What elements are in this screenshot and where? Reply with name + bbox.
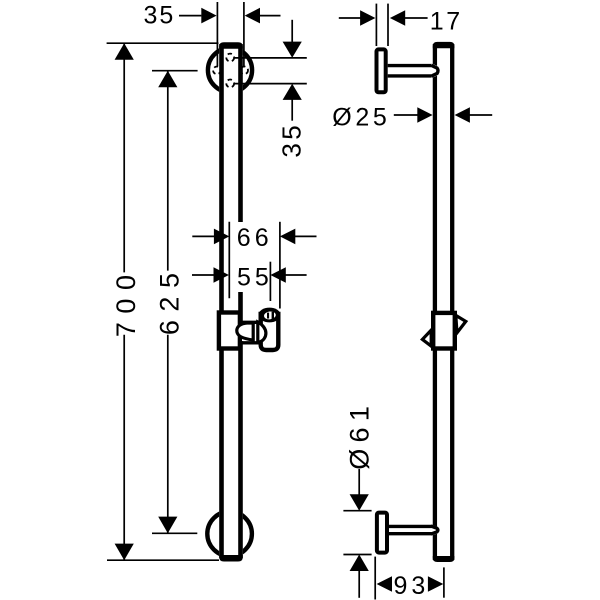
dim Ø61: lower leader [358,571,360,598]
dim Ø25: right arrow [455,107,470,123]
dim 700: dimension line lower [123,335,125,561]
dim 700: bottom extension line [107,559,219,561]
bar bottom cap [219,555,243,562]
dim Ø61: upper leader [358,469,360,495]
dim Ø25: right leader [470,114,493,116]
screw hole left (dashed) [213,67,221,75]
bar right edge upper segment [238,44,243,222]
side bar fill [433,43,455,561]
dim 55: right arrow [270,267,285,283]
dim Ø25: left leader [394,114,420,116]
dim 17: right leader [405,17,428,19]
dim 66: right leader [295,235,317,237]
side bar top cap [433,42,455,48]
dim 625: bottom extension line [152,532,197,534]
bottom flange arm (side) [389,525,440,536]
dim 93: extension line right (bar axis) [443,567,445,597]
svg-text:Ø25: Ø25 [332,104,390,132]
slider body on bar [219,313,240,349]
dim 66: extension line left (bar axis) [228,222,230,298]
dim 55: extension line right [269,262,271,301]
dim 66: left arrow [214,229,229,245]
dim 625: top arrow [158,71,177,88]
svg-text:93: 93 [394,572,430,600]
dim 66: extension line right [279,222,281,309]
dim 35 right: lower leader [291,99,293,120]
svg-text:35: 35 [277,122,307,158]
dim Ø61: lower extension line [343,554,371,556]
dim 93: right arrow [428,576,443,592]
dim 55: right leader [285,274,306,276]
dim Ø61: upper arrow [350,494,369,511]
dim 17: right arrow [390,10,405,26]
dim 35 top: left arrow [201,8,216,24]
screw hole right (dashed) [240,67,248,75]
dim 93: extension line left [374,557,376,600]
svg-text:66: 66 [237,224,273,252]
dim Ø25: left arrow [417,107,432,123]
dim 35 top: right arrow [245,8,260,24]
dim 55: left leader [192,274,214,276]
dim 55: left arrow [214,267,229,283]
dim 700: dimension line upper [123,43,125,272]
bar left edge [219,44,224,558]
dim 35 top: left leader line [179,15,201,17]
svg-text:35: 35 [144,2,176,30]
dim 17: left arrow [360,10,375,26]
top flange arm (side) [388,64,441,78]
top flange plate (side) [377,49,386,92]
side bar left edge [433,44,437,560]
top wall flange circle [208,48,252,92]
side bar right edge [450,44,454,560]
dim Ø61: upper extension line [343,510,371,512]
dim 35 right: lower extension line [234,83,307,85]
svg-text:Ø61: Ø61 [344,400,374,470]
clamp lever nose [237,323,253,340]
dim 35 right: upper arrow [283,42,302,58]
dim 625: dimension line lower [167,335,169,534]
bottom flange plate (side) [377,513,387,553]
slot tick 2 [272,312,274,320]
slot tick 1 [267,313,269,319]
bar right edge lower segment [238,292,243,558]
slider clamp bridge [242,324,261,341]
dim 700: bottom arrow [115,544,134,561]
dim 625: dimension line upper [167,71,169,271]
svg-text:17: 17 [430,7,463,35]
svg-text:700: 700 [111,267,141,338]
side slider left wing [422,330,431,346]
dim 93: left arrow [377,576,392,592]
holder slot [264,311,277,320]
dim 35 right: upper leader [291,20,293,43]
dim Ø61: lower arrow [350,555,369,572]
dim 35 top: extension line right [243,2,245,66]
side slider body [433,313,455,349]
dim 35 right: lower arrow [283,84,302,100]
dim 17: extension line right [387,4,389,46]
screw hole top (dashed) [226,54,234,62]
side slider right wing [456,315,466,332]
dim 66: left leader [192,235,214,237]
side bar bottom cap [433,556,455,562]
svg-text:625: 625 [154,265,184,336]
dim 17: left leader [339,17,361,19]
bottom wall flange circle [207,512,252,557]
bar body fill [219,43,243,560]
dim 17: extension line left [375,4,377,46]
dim 35 top: right leader line [260,15,281,17]
bar top cap [219,42,243,48]
dim 66: right arrow [280,229,295,245]
svg-text:55: 55 [237,264,273,292]
holder top cap [259,308,281,323]
dim 35 right: upper extension line [234,57,307,59]
dim 700: top arrow [115,43,134,60]
holder cylinder body [261,314,279,350]
dim 35 top: extension line left [216,2,218,66]
dim 700: top extension line [107,42,219,44]
clamp lever fang [258,322,266,342]
screw hole bottom (dashed) [226,80,234,88]
dim 625: top extension line [152,70,198,72]
dim 625: bottom arrow [158,517,177,534]
